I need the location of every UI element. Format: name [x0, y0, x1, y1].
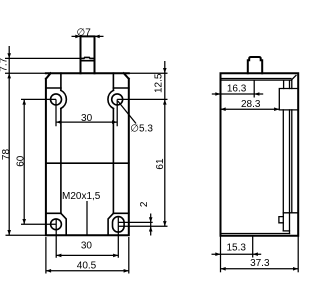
12.5 bottom / 61 top arrow — [163, 99, 167, 104]
extension line body top right — [129, 72, 168, 74]
plunger centerline extension — [253, 80, 255, 97]
37.3 left arrow — [221, 267, 226, 271]
40.5 extension lines — [46, 237, 129, 274]
top-right hole centerlines — [117, 99, 167, 126]
extension line body bottom left — [6, 234, 46, 236]
bottom-left hole centerlines — [21, 219, 56, 258]
15.3 left arrow — [215, 252, 220, 256]
top 30 right arrow — [112, 120, 117, 124]
switch body outline, side view — [221, 73, 299, 236]
12.5 top arrow — [163, 68, 167, 73]
bottom shelf lines — [46, 212, 129, 214]
top-left hole centerlines — [21, 99, 56, 126]
78 bottom arrow — [7, 230, 11, 235]
extension line plunger collar — [5, 57, 81, 59]
28.3 left arrow — [221, 107, 226, 111]
svg-text:60: 60 — [16, 155, 27, 167]
svg-text:16.3: 16.3 — [227, 83, 247, 94]
cable entry axis extension — [252, 237, 254, 258]
2 bottom arrow — [149, 226, 153, 231]
16.3 dimension line — [212, 93, 263, 95]
dia7 right arrow — [95, 35, 100, 39]
top-right corner chamfer — [291, 75, 296, 80]
M20x1,5 leader line — [86, 201, 88, 235]
bottom 30 dimension line — [56, 254, 118, 256]
svg-text:7.7: 7.7 — [0, 57, 10, 71]
top shelf lines — [46, 87, 129, 89]
60 bottom arrow — [22, 219, 26, 224]
svg-text:37.3: 37.3 — [250, 258, 270, 269]
2 dimension line — [150, 214, 152, 236]
plunger, side view — [248, 57, 262, 73]
svg-text:∅7: ∅7 — [77, 28, 92, 39]
svg-text:40.5: 40.5 — [77, 261, 97, 272]
svg-text:28.3: 28.3 — [241, 99, 261, 110]
svg-text:15.3: 15.3 — [226, 243, 246, 254]
top-left mounting hole — [51, 94, 62, 105]
bottom step line — [283, 212, 298, 214]
12.5 and 61 shared dimension line — [164, 61, 166, 226]
top-right mounting boss arc — [108, 90, 113, 108]
plunger, front view — [81, 36, 95, 73]
mid body joint line — [46, 162, 129, 164]
dia5.3 leader line — [118, 101, 136, 124]
15.3 dimension line — [212, 253, 262, 255]
bottom step notch — [279, 217, 283, 223]
plunger collar lines — [81, 57, 95, 60]
bottom-right mounting slot — [113, 217, 125, 232]
60 dimension line — [23, 99, 25, 224]
40.5 right arrow — [124, 269, 129, 273]
svg-text:78: 78 — [1, 149, 12, 161]
top 30 left arrow — [56, 120, 61, 124]
40.5 dimension line — [46, 270, 129, 272]
top plate line 1 — [221, 78, 292, 80]
inner flange lines — [61, 73, 114, 213]
svg-text:∅5.3: ∅5.3 — [130, 124, 153, 135]
svg-text:2: 2 — [139, 201, 150, 207]
inner cover line 2 — [289, 80, 291, 233]
switch body outline, front view — [46, 73, 129, 235]
svg-text:30: 30 — [81, 241, 93, 252]
dia7 left arrow — [75, 35, 80, 39]
svg-text:30: 30 — [81, 113, 93, 124]
bottom-right boss chamfer — [108, 213, 113, 235]
bottom 30 left arrow — [56, 254, 61, 258]
7.7 bottom arrow — [7, 73, 11, 78]
top plate line 2 — [221, 79, 292, 81]
37.3 right arrow — [293, 267, 298, 271]
7.7 and 78 shared dimension line — [8, 46, 10, 235]
37.3 dimension line — [221, 268, 299, 270]
2 top arrow — [149, 217, 153, 222]
bottom 30 right arrow — [113, 254, 118, 258]
extension line body top left — [5, 72, 46, 74]
16.3 left arrow — [215, 92, 220, 96]
bottom-left mounting hole — [51, 219, 62, 230]
bottom inner line — [221, 233, 290, 235]
28.3 dimension line — [221, 108, 280, 110]
top-right mounting hole — [112, 94, 123, 105]
37.3 right extension line — [297, 237, 299, 273]
16.3 right arrow — [254, 92, 259, 96]
top-left mounting boss arc — [61, 90, 66, 108]
inner cover line 1 — [282, 80, 284, 231]
61 bottom arrow — [163, 221, 167, 226]
side latch block — [279, 89, 298, 110]
svg-text:61: 61 — [155, 158, 166, 170]
28.3 right arrow — [274, 107, 279, 111]
svg-text:12.5: 12.5 — [153, 73, 164, 93]
7.7 top arrow — [7, 53, 11, 58]
60 top arrow — [22, 99, 26, 104]
dia7 dimension line — [72, 35, 104, 37]
15.3 right arrow — [253, 252, 258, 256]
top 30 dimension line — [56, 121, 117, 123]
bottom step ledge — [283, 230, 289, 232]
svg-text:M20x1,5: M20x1,5 — [62, 191, 101, 202]
40.5 left arrow — [46, 269, 51, 273]
bottom-right slot centerlines — [118, 218, 167, 258]
cover edge line — [291, 80, 293, 213]
bottom-left boss chamfer — [61, 213, 66, 235]
37.3 left extension line — [220, 237, 222, 273]
